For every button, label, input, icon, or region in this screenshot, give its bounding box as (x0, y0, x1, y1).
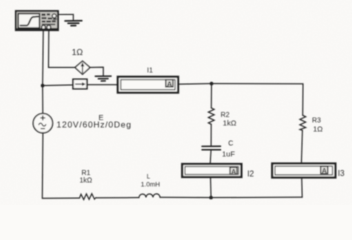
AC source E (33, 114, 52, 133)
wire R1 to inductor (96, 197, 139, 199)
svg-text:1Ω: 1Ω (72, 47, 83, 57)
junction node A (41, 84, 45, 88)
wire source to bottom-left corner (42, 133, 79, 198)
junction node B (210, 82, 214, 86)
svg-text:A: A (322, 168, 327, 175)
wire R2 to capacitor (210, 124, 212, 146)
ammeter I3 (272, 164, 335, 178)
fuse / current sensor box (73, 79, 87, 89)
svg-text:R1: R1 (82, 170, 91, 177)
svg-text:120V/60Hz/0Deg: 120V/60Hz/0Deg (57, 119, 132, 129)
wire probe A down (42, 29, 45, 85)
ground G2 (95, 76, 111, 81)
wire node B down to R2 (210, 84, 212, 108)
svg-text:R3: R3 (312, 117, 321, 124)
oscilloscope probe terminals (42, 25, 51, 29)
svg-text:I2: I2 (247, 170, 254, 179)
resistor R3 (300, 115, 306, 130)
wire node A to fuse (43, 84, 73, 87)
svg-text:C: C (228, 141, 233, 148)
ground G1 (65, 21, 82, 26)
oscilloscope knob (52, 14, 56, 18)
wire I2 down to bottom rail (210, 177, 213, 198)
svg-text:I3: I3 (338, 169, 345, 178)
ammeter I2 (182, 164, 241, 177)
wire I1 to node B (178, 83, 211, 86)
controlled source diamond V1 (75, 61, 90, 74)
AC source E wire from node A (42, 86, 44, 114)
capacitor C (202, 146, 221, 150)
wire probe B down and right to diamond (49, 29, 76, 67)
ammeter I1 (118, 77, 178, 93)
resistor R2 (208, 108, 214, 124)
bottom rail wire (160, 196, 302, 198)
oscilloscope control panel texture (42, 13, 57, 25)
wire I3 down to bottom rail (301, 178, 304, 198)
wire scope to ground G1 (58, 14, 73, 20)
svg-text:1uF: 1uF (222, 150, 235, 159)
wire R3 to I3 (301, 130, 302, 163)
wire node B to top-right corner and down (212, 84, 304, 116)
inductor L (139, 194, 160, 198)
oscilloscope XSC1 body (16, 11, 58, 30)
svg-text:A: A (167, 79, 173, 88)
resistor R1 (80, 194, 96, 200)
wire diamond to ground G2 (90, 67, 103, 76)
wire capacitor to I2 (209, 150, 212, 164)
junction node C (209, 196, 213, 200)
svg-text:I1: I1 (147, 67, 153, 74)
svg-text:1.0mH: 1.0mH (141, 182, 160, 189)
svg-text:1kΩ: 1kΩ (80, 178, 93, 185)
svg-text:A: A (231, 169, 236, 176)
wire fuse to I1 (87, 84, 118, 86)
svg-text:1Ω: 1Ω (313, 124, 323, 133)
oscilloscope screen with trace (18, 14, 39, 28)
svg-text:1kΩ: 1kΩ (223, 118, 237, 127)
